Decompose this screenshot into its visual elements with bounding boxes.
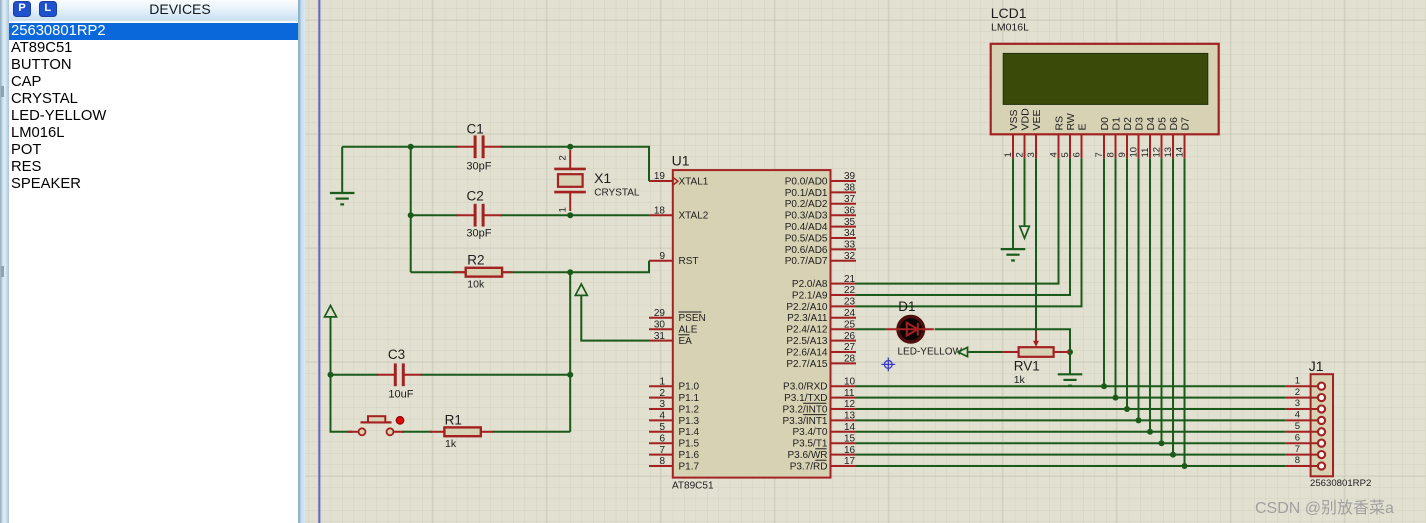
pin 4 (P1.3) stub: [649, 411, 700, 427]
svg-text:11: 11: [1140, 148, 1151, 158]
svg-text:P3.5/T1: P3.5/T1: [792, 439, 827, 450]
svg-text:29: 29: [654, 308, 666, 319]
pin 12 (P3.2-INT0) stub: [782, 399, 856, 415]
junction: D7/P3.7: [1182, 463, 1188, 469]
C3 label: [388, 347, 405, 362]
svg-text:1: 1: [558, 207, 569, 212]
LCD pin 5 (RW) stub: [1060, 113, 1077, 158]
pin 10 (P3.0-RXD) stub: [783, 376, 856, 392]
wire: LCD D2 column: [1126, 158, 1128, 409]
pin 15 (P3.5-T1) stub: [792, 433, 856, 449]
wire: P3.2 row to J1 pin 3: [856, 408, 1286, 410]
svg-text:AT89C51: AT89C51: [672, 481, 714, 492]
wire: R2 row to RST pin: [411, 261, 649, 272]
LCD pin 1 (VSS) stub: [1003, 109, 1020, 158]
R2 label: [467, 253, 484, 268]
wire: P3.6 row to J1 pin 7: [856, 454, 1286, 456]
pin 18 (XTAL2) stub: [649, 205, 709, 221]
svg-text:8: 8: [659, 456, 665, 467]
push button (BUTTON): [348, 416, 405, 435]
junction: VCC/C3: [328, 372, 334, 378]
svg-text:C1: C1: [467, 121, 484, 136]
junction: XTAL2 node: [567, 212, 573, 218]
J1 pin 1: [1286, 375, 1325, 389]
pin 26 (P2.5-A13) stub: [786, 331, 856, 347]
svg-text:P2.6/A14: P2.6/A14: [786, 347, 828, 358]
svg-text:P1.1: P1.1: [679, 393, 700, 404]
pin 29 (PSEN) stub: [649, 308, 706, 324]
svg-text:5: 5: [1060, 152, 1071, 157]
pin 27 (P2.6-A14) stub: [786, 342, 856, 358]
junction: C1 left: [408, 144, 414, 150]
junction: D6/P3.6: [1170, 452, 1176, 458]
pin 7 (P1.6) stub: [649, 445, 700, 461]
svg-text:10: 10: [844, 376, 856, 387]
J1 pin 3: [1286, 398, 1325, 412]
connector J1 body: [1311, 374, 1333, 476]
wire: LCD D3 column: [1138, 158, 1140, 420]
ground symbol (LCD VSS): [1001, 249, 1026, 260]
svg-text:ALE: ALE: [679, 325, 698, 336]
svg-text:14: 14: [1175, 147, 1186, 158]
pin 32 (P0.7-AD7) stub: [785, 251, 856, 267]
svg-text:P1.7: P1.7: [679, 461, 700, 472]
svg-text:P3.0/RXD: P3.0/RXD: [783, 382, 827, 393]
pin 9 (RST) stub: [649, 251, 699, 267]
wire: LCD D5 column: [1161, 158, 1163, 443]
svg-text:P3.4/T0: P3.4/T0: [792, 427, 827, 438]
junction: D4/P3.4: [1147, 429, 1153, 435]
svg-text:D4: D4: [1145, 117, 1157, 131]
LCD pin 14 (D7) stub: [1175, 117, 1192, 158]
wire: grounded column C1/C2/R2 left: [410, 147, 412, 272]
RV1 label: [1014, 359, 1040, 374]
svg-text:6: 6: [1072, 152, 1083, 157]
pin 35 (P0.4-AD4) stub: [785, 217, 856, 233]
svg-text:P1.3: P1.3: [679, 416, 700, 427]
J1 pin 7: [1286, 444, 1325, 458]
svg-text:U1: U1: [672, 152, 690, 168]
wire: P3.1 row to J1 pin 2: [856, 397, 1286, 399]
svg-text:4: 4: [1295, 410, 1300, 421]
svg-text:13: 13: [1163, 147, 1174, 158]
svg-text:1: 1: [659, 376, 665, 387]
junction: C3/RST: [567, 372, 573, 378]
svg-text:38: 38: [844, 183, 856, 194]
wire: P3.0 row to J1 pin 1: [856, 385, 1286, 387]
svg-text:P0.0/AD0: P0.0/AD0: [785, 176, 828, 187]
junction: XTAL1 node: [567, 144, 573, 150]
svg-text:LED-YELLOW: LED-YELLOW: [898, 346, 963, 357]
svg-text:RST: RST: [679, 256, 699, 267]
svg-text:P0.4/AD4: P0.4/AD4: [785, 222, 828, 233]
svg-text:3: 3: [1026, 152, 1037, 157]
pin 3 (P1.2) stub: [649, 399, 700, 415]
svg-text:39: 39: [844, 171, 856, 182]
svg-text:12: 12: [1152, 147, 1163, 158]
svg-text:RV1: RV1: [1014, 359, 1040, 374]
svg-text:D5: D5: [1157, 117, 1169, 131]
svg-text:P2.0/A8: P2.0/A8: [792, 279, 828, 290]
C1 label: [467, 121, 484, 136]
svg-text:P2.5/A13: P2.5/A13: [786, 336, 828, 347]
pin 1 (P1.0) stub: [649, 376, 700, 392]
svg-text:25: 25: [844, 319, 856, 330]
junction: RST node: [567, 269, 573, 275]
pin 8 (P1.7) stub: [649, 456, 700, 472]
svg-text:23: 23: [844, 297, 856, 308]
wire: LCD D0 column: [1103, 158, 1105, 386]
pin 17 (P3.7-RD) stub: [790, 456, 856, 472]
wire: LCD D7 column: [1184, 158, 1186, 466]
R1 value 1k: [445, 438, 457, 450]
J1 pin 2: [1286, 387, 1325, 401]
C2 label: [467, 189, 484, 204]
svg-text:P2.7/A15: P2.7/A15: [786, 359, 828, 370]
pin 39 (P0.0-AD0) stub: [785, 171, 856, 187]
svg-text:D2: D2: [1122, 117, 1134, 131]
wire: P2.4 to LED D1 anode: [856, 328, 886, 330]
wire: LCD VDD down to power terminal: [1024, 158, 1026, 226]
LCD pin 10 (D3) stub: [1129, 117, 1146, 158]
J1 value 25630801RP2: [1310, 478, 1371, 489]
pin 16 (P3.6-WR) stub: [787, 445, 856, 461]
wire: P3.5 row to J1 pin 6: [856, 442, 1286, 444]
svg-text:P1.2: P1.2: [679, 404, 700, 415]
LCD pin 7 (D0) stub: [1094, 117, 1111, 158]
pin 6 (P1.5) stub: [649, 433, 700, 449]
svg-text:27: 27: [844, 342, 856, 353]
svg-text:24: 24: [844, 308, 856, 319]
wire: LCD D4 column: [1149, 158, 1151, 432]
svg-text:6: 6: [1295, 432, 1300, 443]
svg-text:2: 2: [659, 388, 665, 399]
svg-text:1k: 1k: [445, 438, 457, 450]
pin 19 (XTAL1) stub: [649, 171, 709, 187]
wire: XTAL2 net (C2 row to U1 XTAL2): [411, 214, 649, 216]
X1 label: [594, 170, 611, 186]
svg-text:P3.3/INT1: P3.3/INT1: [782, 416, 827, 427]
svg-text:PSEN: PSEN: [679, 313, 706, 324]
wire: LCD D6 column: [1172, 158, 1174, 454]
svg-text:D6: D6: [1168, 117, 1180, 131]
capacitor C3: [377, 363, 422, 386]
U1 reference label: [672, 152, 690, 168]
svg-text:10uF: 10uF: [388, 389, 413, 401]
RV1 value 1k: [1014, 374, 1026, 386]
LCD pin 3 (VEE) stub: [1026, 109, 1043, 158]
pin 34 (P0.5-AD5) stub: [785, 228, 856, 244]
LCD pin 11 (D4) stub: [1140, 117, 1157, 158]
svg-text:30pF: 30pF: [466, 161, 491, 173]
LCD pin 8 (D1) stub: [1106, 117, 1123, 158]
svg-text:P0.5/AD5: P0.5/AD5: [785, 233, 828, 244]
svg-text:17: 17: [844, 456, 856, 467]
svg-text:10: 10: [1129, 147, 1140, 158]
wire: LED cathode to RV1 right / ground: [935, 329, 1070, 374]
pin 31 (EA) stub: [649, 331, 692, 347]
svg-text:18: 18: [654, 205, 666, 216]
junction: D5/P3.5: [1159, 440, 1165, 446]
LCD1 reference label: [991, 5, 1027, 21]
pin 2 (P1.1) stub: [649, 388, 700, 404]
op-amp n/a : microcontroller U1 AT89C51 body: [673, 170, 831, 478]
C2 value 30pF: [466, 227, 491, 239]
wire: P3.7 row to J1 pin 8: [856, 465, 1286, 467]
wire: P2.2 to LCD E: [856, 158, 1082, 306]
pin 24 (P2.3-A11) stub: [787, 308, 856, 324]
resistor R1: [430, 427, 493, 436]
power terminal (down arrow, LCD VDD): [1020, 226, 1030, 238]
resistor R2: [453, 268, 512, 277]
svg-text:P3.1/TXD: P3.1/TXD: [784, 393, 827, 404]
svg-text:5: 5: [659, 422, 665, 433]
wire: C3 node down to R1 row: [569, 375, 571, 432]
J1 pin 5: [1286, 421, 1325, 435]
svg-text:35: 35: [844, 217, 856, 228]
svg-text:C3: C3: [388, 347, 405, 362]
svg-text:9: 9: [659, 251, 665, 262]
svg-text:VDD: VDD: [1020, 108, 1032, 131]
svg-text:P1.6: P1.6: [679, 450, 700, 461]
svg-text:14: 14: [844, 422, 856, 433]
junction: D3/P3.3: [1136, 417, 1142, 423]
svg-text:1k: 1k: [1014, 374, 1026, 386]
svg-text:C2: C2: [467, 189, 484, 204]
svg-text:16: 16: [844, 445, 856, 456]
svg-text:P1.5: P1.5: [679, 439, 700, 450]
C1 value 30pF: [466, 161, 491, 173]
R2 value 10k: [467, 278, 485, 290]
svg-text:P0.3/AD3: P0.3/AD3: [785, 211, 828, 222]
svg-text:D3: D3: [1134, 117, 1146, 131]
svg-text:36: 36: [844, 205, 856, 216]
capacitor C1: [457, 135, 502, 158]
pin 11 (P3.1-TXD) stub: [784, 388, 856, 404]
svg-text:D0: D0: [1099, 117, 1111, 131]
svg-text:8: 8: [1106, 152, 1117, 157]
svg-text:X1: X1: [594, 170, 611, 186]
R1 label: [445, 412, 462, 427]
pin 30 (ALE) stub: [649, 319, 698, 335]
wire: LCD D1 column: [1115, 158, 1117, 397]
svg-text:CRYSTAL: CRYSTAL: [594, 187, 640, 198]
svg-text:XTAL2: XTAL2: [679, 211, 709, 222]
svg-text:2: 2: [1015, 152, 1026, 157]
svg-text:9: 9: [1117, 152, 1128, 157]
U1 value label AT89C51: [672, 481, 714, 492]
svg-text:2: 2: [558, 155, 569, 160]
svg-text:VSS: VSS: [1008, 109, 1020, 130]
wire: P2.0 to LCD RS: [856, 158, 1059, 283]
pin 25 (P2.4-A12) stub: [786, 319, 856, 335]
origin marker (blue): [881, 358, 895, 372]
svg-text:1: 1: [1295, 375, 1300, 386]
J1 pin 6: [1286, 432, 1325, 446]
wire: C3 row: [331, 374, 571, 376]
svg-text:P1.4: P1.4: [679, 427, 700, 438]
svg-text:E: E: [1077, 123, 1089, 130]
svg-text:19: 19: [654, 171, 666, 182]
D1 label: [898, 299, 915, 314]
pin 21 (P2.0-A8) stub: [792, 274, 856, 290]
pin 23 (P2.2-A10) stub: [786, 297, 856, 313]
crystal X1: [554, 150, 586, 211]
wire: left VCC column + bottom row (button / R1): [331, 317, 571, 432]
junction: RV1 right: [1067, 349, 1073, 355]
svg-text:R2: R2: [467, 253, 484, 268]
C3 value 10uF: [388, 389, 413, 401]
pin 28 (P2.7-A15) stub: [786, 354, 856, 370]
junction: C2 left: [408, 212, 414, 218]
svg-text:1: 1: [1003, 152, 1014, 157]
junction: D2/P3.2: [1124, 406, 1130, 412]
svg-text:25630801RP2: 25630801RP2: [1310, 478, 1371, 489]
junction: D1/P3.1: [1113, 395, 1119, 401]
svg-text:P0.2/AD2: P0.2/AD2: [785, 199, 828, 210]
pin 33 (P0.6-AD6) stub: [785, 240, 856, 256]
svg-text:P0.7/AD7: P0.7/AD7: [785, 256, 828, 267]
svg-text:P2.4/A12: P2.4/A12: [786, 325, 828, 336]
LED D1 (LED-YELLOW): [886, 316, 934, 342]
svg-text:D1: D1: [1111, 117, 1123, 131]
svg-text:11: 11: [844, 388, 855, 399]
svg-text:D1: D1: [898, 299, 915, 314]
LCD display LCD1 body: [991, 44, 1219, 135]
LCD pin 2 (VDD) stub: [1015, 108, 1032, 158]
wire: RST node vertical to C3 row: [569, 272, 571, 375]
XTAL1 clock input arrow: [673, 177, 678, 185]
svg-text:26: 26: [844, 331, 856, 342]
pin 37 (P0.2-AD2) stub: [785, 194, 856, 210]
X1 pin 2 number: [558, 155, 569, 160]
svg-text:P3.2/INT0: P3.2/INT0: [782, 404, 827, 415]
capacitor C2: [457, 204, 502, 227]
svg-text:22: 22: [844, 285, 856, 296]
svg-text:P2.3/A11: P2.3/A11: [787, 313, 828, 324]
LCD1 value LM016L: [991, 22, 1029, 34]
svg-text:28: 28: [844, 354, 856, 365]
X1 pin 1 number: [558, 207, 569, 212]
svg-text:RW: RW: [1065, 113, 1077, 130]
LCD pin 12 (D5) stub: [1152, 117, 1169, 158]
pin 13 (P3.3-INT1) stub: [782, 411, 856, 427]
pin 14 (P3.4-T0) stub: [792, 422, 856, 438]
svg-text:P3.7/RD: P3.7/RD: [790, 461, 828, 472]
svg-text:LM016L: LM016L: [991, 22, 1029, 34]
svg-text:D7: D7: [1180, 117, 1192, 131]
junction: D0/P3.0: [1101, 383, 1107, 389]
svg-text:21: 21: [844, 274, 856, 285]
X1 value CRYSTAL: [594, 187, 640, 198]
wire: LCD VEE down to RV1 wiper: [1035, 158, 1037, 331]
svg-text:R1: R1: [445, 412, 462, 427]
svg-text:13: 13: [844, 411, 856, 422]
svg-text:XTAL1: XTAL1: [679, 176, 709, 187]
wire: P3.3 row to J1 pin 4: [856, 419, 1286, 421]
pin 36 (P0.3-AD3) stub: [785, 205, 856, 221]
svg-text:P0.6/AD6: P0.6/AD6: [785, 245, 828, 256]
LCD pin 9 (D2) stub: [1117, 117, 1134, 158]
svg-text:VEE: VEE: [1031, 109, 1043, 130]
svg-text:P3.6/WR: P3.6/WR: [787, 450, 827, 461]
LCD pin 4 (RS) stub: [1049, 116, 1066, 158]
svg-text:30: 30: [654, 319, 666, 330]
wire: P3.4 row to J1 pin 5: [856, 431, 1286, 433]
J1 pin 4: [1286, 410, 1325, 424]
wire: EA net: [581, 295, 649, 341]
svg-text:37: 37: [844, 194, 856, 205]
svg-text:LCD1: LCD1: [991, 5, 1027, 21]
J1 reference label: [1309, 358, 1324, 374]
power terminal (VCC) above left column: [325, 306, 337, 317]
pin 5 (P1.4) stub: [649, 422, 700, 438]
svg-text:RS: RS: [1054, 116, 1066, 131]
svg-text:J1: J1: [1309, 358, 1324, 374]
ground symbol (left of C1): [330, 193, 355, 204]
svg-text:34: 34: [844, 228, 856, 239]
svg-text:7: 7: [1295, 444, 1300, 455]
svg-text:5: 5: [1295, 421, 1300, 432]
D1 value LED-YELLOW: [898, 346, 963, 357]
svg-text:P2.2/A10: P2.2/A10: [786, 302, 828, 313]
LCD pin 6 (E) stub: [1072, 123, 1089, 158]
potentiometer RV1: [1002, 331, 1070, 357]
wire: LCD VSS down to ground: [1012, 158, 1014, 249]
svg-text:30pF: 30pF: [466, 227, 491, 239]
svg-text:31: 31: [654, 331, 666, 342]
wire: XTAL1 net (C1 right to U1 XTAL1): [342, 147, 649, 181]
svg-text:10k: 10k: [467, 278, 485, 290]
svg-text:8: 8: [1295, 455, 1300, 466]
ground symbol (RV1): [1058, 374, 1083, 385]
svg-text:P0.1/AD1: P0.1/AD1: [785, 188, 828, 199]
svg-text:32: 32: [844, 251, 856, 262]
svg-text:4: 4: [1049, 152, 1060, 157]
svg-text:EA: EA: [679, 336, 693, 347]
svg-text:P1.0: P1.0: [679, 382, 700, 393]
svg-text:6: 6: [659, 433, 665, 444]
svg-text:15: 15: [844, 433, 856, 444]
wire: RV1 left to arrow terminal: [967, 351, 1002, 353]
wire: P2.1 to LCD RW: [856, 158, 1070, 295]
pin 22 (P2.1-A9) stub: [792, 285, 856, 301]
J1 pin 8: [1286, 455, 1325, 469]
terminal arrow (RV1 left): [958, 347, 968, 356]
svg-text:4: 4: [659, 411, 665, 422]
svg-text:P2.1/A9: P2.1/A9: [792, 290, 828, 301]
svg-text:2: 2: [1295, 387, 1300, 398]
power terminal (VCC) for EA: [575, 284, 587, 295]
svg-text:33: 33: [844, 240, 856, 251]
svg-text:7: 7: [1094, 152, 1105, 157]
svg-text:12: 12: [844, 399, 856, 410]
sheet border line: [318, 0, 320, 523]
svg-text:3: 3: [1295, 398, 1300, 409]
LCD pin 13 (D6) stub: [1163, 117, 1180, 158]
pin 38 (P0.1-AD1) stub: [785, 183, 856, 199]
svg-text:7: 7: [659, 445, 665, 456]
svg-text:3: 3: [659, 399, 665, 410]
wire: ground stub left: [341, 147, 343, 193]
